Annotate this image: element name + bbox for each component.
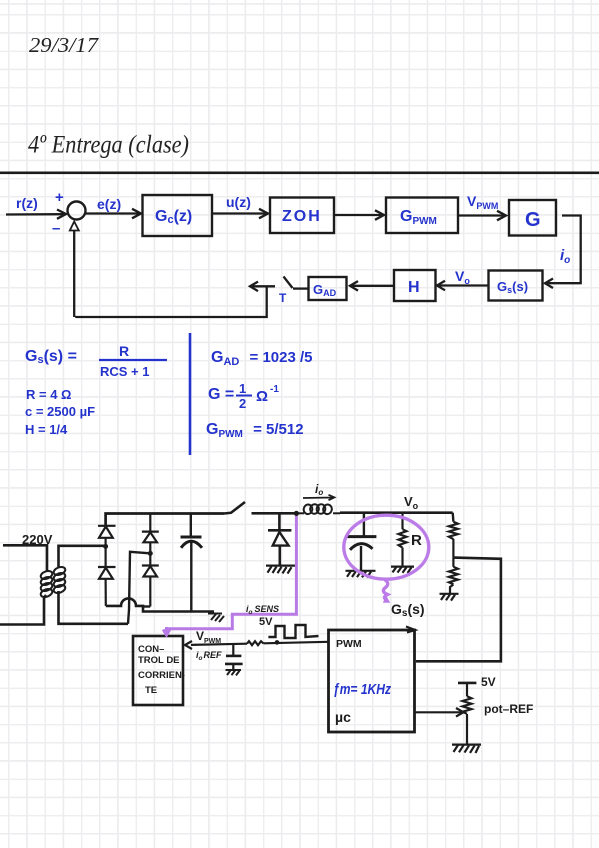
block Gc(z)	[143, 195, 213, 236]
wire G output down to Gs(s)	[545, 216, 581, 289]
svg-text:5V: 5V	[481, 675, 496, 689]
wire PWM to pot wiper	[415, 708, 464, 717]
potentiometer pot-REF	[458, 683, 476, 744]
svg-text:CORRIEN-: CORRIEN-	[138, 670, 185, 681]
svg-text:Gc(z): Gc(z)	[155, 208, 192, 226]
svg-text:T: T	[279, 291, 287, 305]
svg-text:4º Entrega (clase): 4º Entrega (clase)	[28, 130, 189, 159]
svg-text:io: io	[560, 247, 570, 266]
diode freewheel	[268, 513, 291, 565]
block GPWM	[386, 198, 458, 234]
svg-text:VPWM: VPWM	[467, 193, 498, 211]
svg-text:Vo: Vo	[455, 268, 470, 286]
diode D4 bridge bottom-right	[142, 553, 159, 606]
svg-text:G: G	[525, 209, 541, 231]
svg-text:Gs(s) =: Gs(s) =	[25, 348, 77, 366]
svg-text:r(z): r(z)	[16, 195, 38, 211]
svg-text:29/3/17: 29/3/17	[29, 33, 100, 57]
node junction dot left (secondary top)	[103, 544, 108, 549]
svg-text:Gs(s): Gs(s)	[391, 601, 425, 619]
diode D3 bridge top-right	[142, 514, 159, 554]
svg-text:5V: 5V	[259, 616, 273, 628]
svg-text:VPWM: VPWM	[196, 629, 221, 645]
wire e(z) arrow	[86, 209, 141, 219]
block control de corriente	[133, 636, 185, 705]
wire secondary top	[59, 546, 106, 568]
svg-text:TE: TE	[145, 685, 157, 696]
wire primary bottom	[0, 595, 46, 625]
svg-text:G =: G =	[208, 386, 234, 403]
junction right column to negative rail	[144, 605, 151, 607]
svg-text:-1: -1	[270, 384, 279, 395]
ground divider	[440, 594, 459, 601]
switch T sampler	[284, 277, 309, 289]
ground output capacitor	[346, 571, 376, 578]
svg-text:Ω: Ω	[256, 388, 268, 405]
wire input arrow	[6, 210, 66, 219]
block Gs(s) feedback sensor	[489, 271, 543, 301]
ground pot	[452, 745, 481, 753]
wire negative rail with hop over secondary wire	[106, 598, 214, 611]
node switch-node dot	[294, 511, 299, 516]
svg-text:u(z): u(z)	[226, 194, 251, 210]
diode D1 bridge top-left	[98, 526, 116, 547]
wire rail corner into divider	[452, 513, 455, 522]
wire divider midpoint to PWM block	[416, 558, 501, 662]
wire primary top	[3, 545, 47, 571]
wire purple io sense path	[163, 516, 296, 635]
svg-text:GAD = 1023 /5: GAD = 1023 /5	[211, 349, 313, 368]
horizontal rule	[0, 172, 599, 175]
wire Gs(s) to H	[437, 281, 489, 291]
svg-text:e(z): e(z)	[97, 196, 121, 212]
wire H to GAD	[350, 281, 394, 291]
svg-text:–: –	[52, 220, 60, 237]
svg-text:H = 1/4: H = 1/4	[25, 422, 68, 437]
svg-text:Gs(s): Gs(s)	[497, 279, 528, 295]
wire top rail left	[106, 514, 224, 526]
inductor L output	[296, 503, 340, 514]
wire secondary bottom	[59, 591, 129, 624]
resistor divider R1	[449, 522, 458, 558]
svg-text:ZOH: ZOH	[282, 208, 322, 225]
svg-text:1: 1	[239, 381, 246, 396]
svg-text:GPWM: GPWM	[400, 208, 437, 227]
ground ioREF	[226, 670, 242, 675]
svg-text:ioREF: ioREF	[196, 650, 222, 662]
capacitor output	[346, 513, 376, 571]
wire GPWM to G	[459, 211, 506, 221]
block ZOH	[270, 198, 334, 234]
svg-text:R: R	[119, 343, 129, 359]
label io with arrow	[303, 482, 335, 500]
svg-text:+: +	[55, 189, 64, 206]
block GAD	[309, 277, 347, 300]
svg-text:2: 2	[239, 396, 246, 411]
highlight ellipse Gs(s) purple	[344, 515, 429, 602]
svg-text:RCS + 1: RCS + 1	[100, 364, 150, 379]
wire feedback to summing junction	[74, 230, 275, 318]
svg-text:c = 2500 µF: c = 2500 µF	[25, 404, 95, 419]
capacitor filter (electrolytic)	[181, 514, 203, 612]
wire secondary bottom vertical to right bridge midpoint	[128, 552, 148, 624]
switch S1 (chopper)	[224, 502, 296, 514]
equation Gs(s) = R / (RCs+1)	[25, 343, 167, 379]
ground load R	[391, 567, 414, 573]
inductor primary winding	[40, 570, 54, 599]
feedback arrowhead into summing junction	[70, 222, 79, 231]
block H	[394, 270, 436, 301]
block G	[509, 200, 556, 236]
svg-text:R = 4 Ω: R = 4 Ω	[26, 387, 71, 402]
capacitor ioREF	[225, 644, 243, 670]
resistor divider R2	[449, 558, 458, 594]
svg-text:io: io	[315, 482, 323, 497]
svg-text:GAD: GAD	[313, 282, 337, 298]
waveform PWM pulses	[268, 625, 318, 638]
resistor load R	[399, 513, 407, 567]
svg-text:pot–REF: pot–REF	[484, 702, 533, 716]
wire top rail right	[340, 511, 453, 514]
wire control input with resistor	[185, 641, 329, 649]
svg-text:TROL DE: TROL DE	[138, 655, 180, 666]
block PWM / uC	[329, 627, 416, 733]
ground main rail	[208, 614, 224, 623]
equation G = 1/2 ohm^-1	[208, 381, 279, 411]
node junction dot right (secondary bottom)	[148, 551, 153, 556]
ground freewheel	[266, 566, 295, 574]
svg-text:ƒm= 1KHz: ƒm= 1KHz	[333, 681, 391, 698]
svg-text:PWM: PWM	[336, 638, 362, 650]
divider line blue	[189, 333, 192, 455]
svg-text:Vo: Vo	[404, 494, 419, 511]
svg-text:µc: µc	[335, 709, 351, 725]
diode D2 bridge bottom-left	[98, 546, 116, 606]
wire u(z) arrow	[213, 209, 268, 219]
summing junction	[68, 202, 86, 220]
node dot on control wire	[275, 640, 280, 645]
svg-text:CON–: CON–	[138, 644, 164, 655]
wire ZOH to GPWM	[334, 210, 384, 220]
svg-text:H: H	[408, 279, 420, 296]
svg-text:GPWM = 5/512: GPWM = 5/512	[206, 421, 304, 440]
svg-text:R: R	[411, 532, 422, 549]
inductor secondary winding	[53, 566, 67, 595]
